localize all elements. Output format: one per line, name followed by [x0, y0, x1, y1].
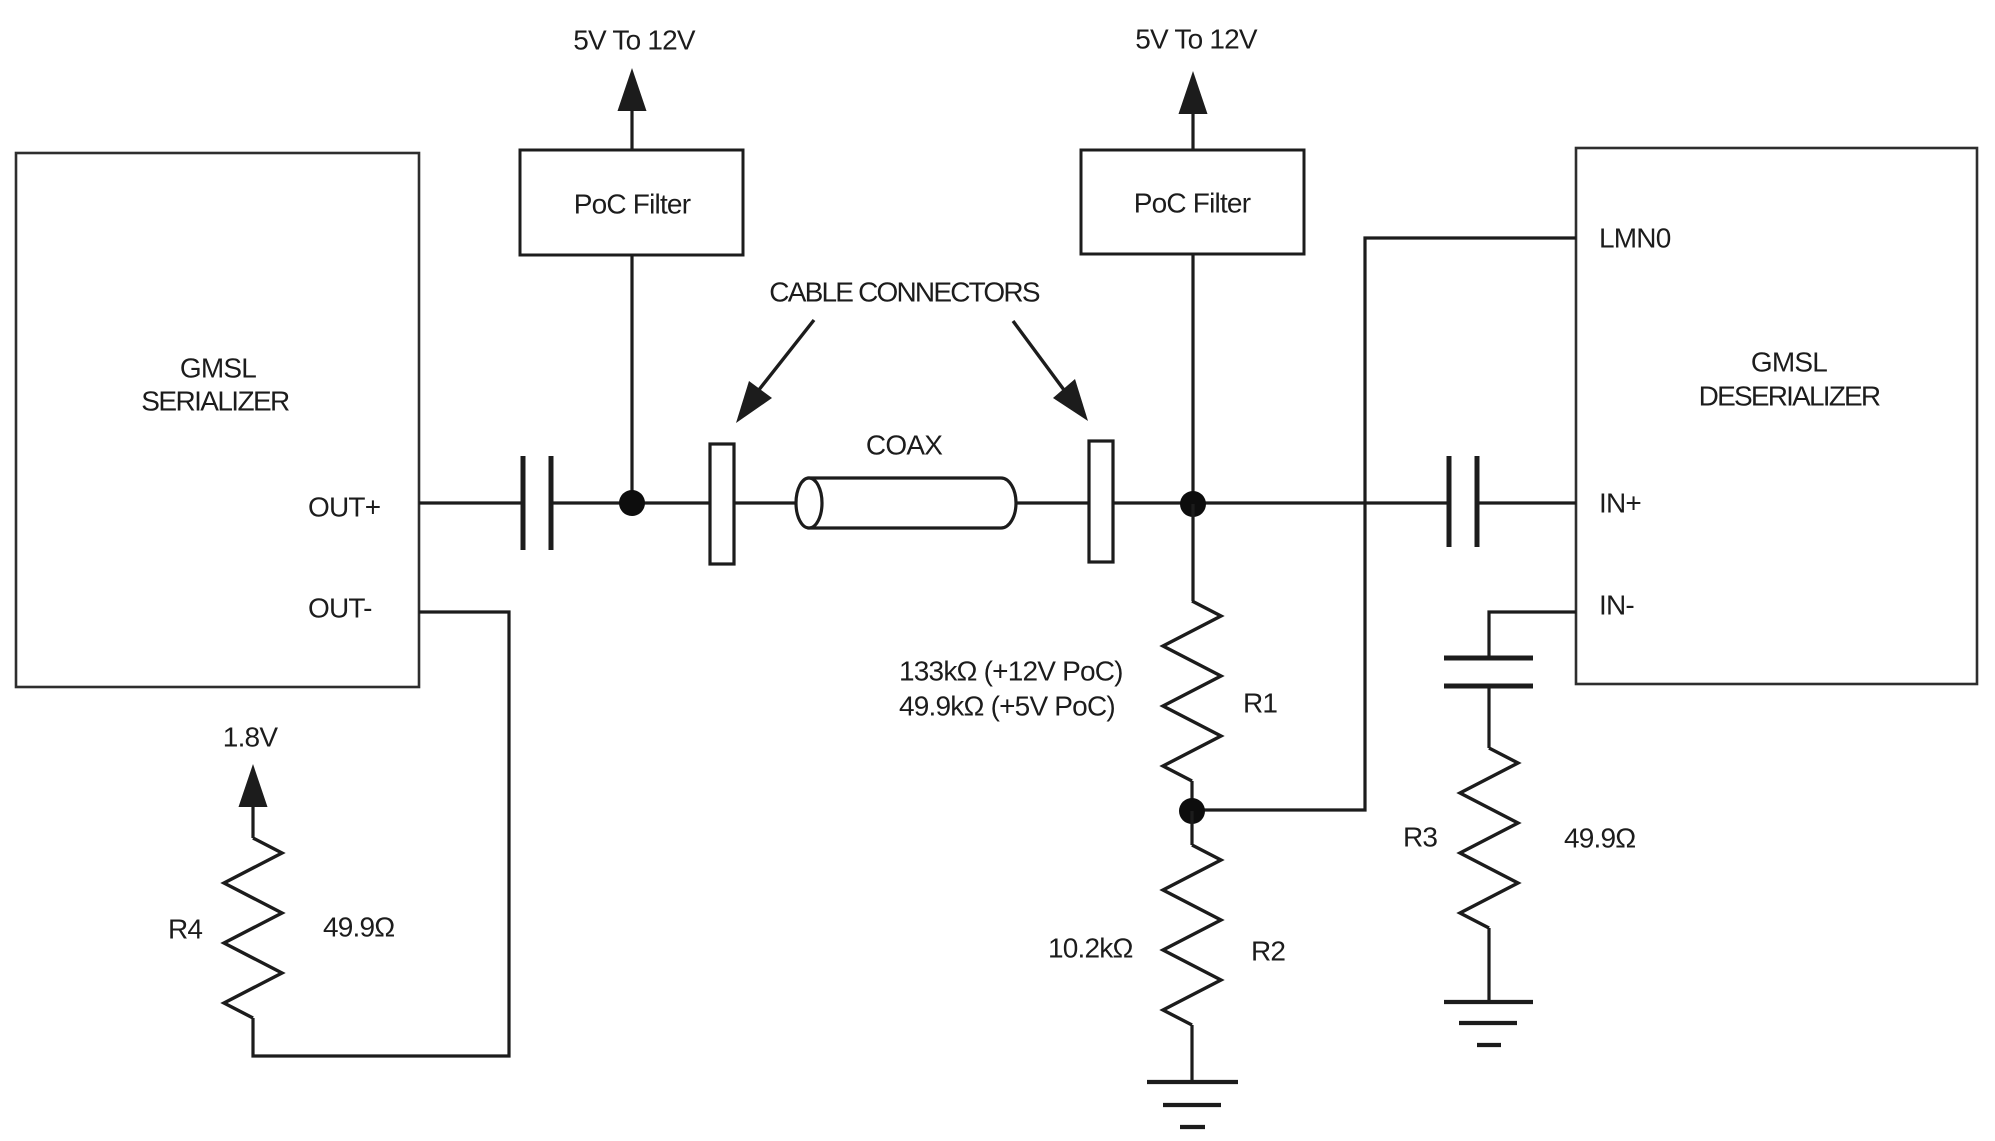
svg-text:133kΩ (+12V PoC): 133kΩ (+12V PoC)	[899, 656, 1123, 687]
wire R2 to ground	[1190, 1025, 1193, 1082]
wire C3 to R3	[1487, 686, 1490, 748]
svg-text:OUT-: OUT-	[308, 593, 372, 624]
wire R4 to 1.8V arrow	[251, 801, 254, 838]
svg-text:IN+: IN+	[1599, 488, 1641, 519]
node junction dot 1	[619, 490, 645, 516]
svg-text:49.9kΩ (+5V PoC): 49.9kΩ (+5V PoC)	[899, 691, 1115, 722]
svg-text:R2: R2	[1251, 936, 1285, 967]
svg-text:SERIALIZER: SERIALIZER	[141, 386, 289, 417]
node junction dot 2	[1180, 491, 1206, 517]
wire connector 2 to C2	[1113, 501, 1449, 504]
svg-text:R4: R4	[168, 914, 202, 945]
power arrow to 5V-12V rail (right)	[1179, 71, 1208, 150]
svg-text:10.2kΩ: 10.2kΩ	[1048, 933, 1133, 964]
resistor R3	[1460, 748, 1518, 928]
wire PoC filter 2 drop	[1191, 254, 1194, 504]
wire OUT- loop	[253, 612, 509, 1056]
svg-text:LMN0: LMN0	[1599, 223, 1671, 254]
wire R3 to ground	[1487, 928, 1490, 1001]
node junction dot 3 (R1/R2)	[1179, 798, 1205, 824]
wire R1 to node	[1190, 781, 1193, 810]
label R1 value	[899, 656, 1123, 722]
svg-text:DESERIALIZER: DESERIALIZER	[1699, 381, 1880, 412]
wire connector 1 to coax	[734, 501, 800, 504]
wire LMN0 net	[1192, 238, 1576, 810]
svg-text:OUT+: OUT+	[308, 492, 380, 523]
cable connector 1	[710, 444, 734, 564]
svg-text:GMSL: GMSL	[1751, 347, 1827, 378]
svg-text:CABLE CONNECTORS: CABLE CONNECTORS	[769, 277, 1040, 308]
svg-text:R1: R1	[1243, 688, 1277, 719]
svg-text:1.8V: 1.8V	[223, 722, 279, 753]
resistor R4	[224, 838, 282, 1018]
wire IN- stub	[1489, 612, 1576, 657]
GMSL deserializer U2 box	[1576, 148, 1977, 684]
svg-text:PoC Filter: PoC Filter	[1134, 188, 1251, 219]
svg-text:5V To 12V: 5V To 12V	[1135, 24, 1258, 55]
PoC filter box 2	[1081, 150, 1304, 254]
power arrow to 5V-12V rail (left)	[618, 68, 647, 150]
svg-text:R3: R3	[1403, 822, 1437, 853]
svg-text:COAX: COAX	[866, 430, 943, 461]
callout arrow to connector 1	[736, 320, 814, 423]
wire C2 to IN+	[1477, 501, 1576, 504]
ground below R2	[1147, 1082, 1238, 1127]
wire dot2 to R1	[1191, 504, 1194, 601]
wire node to R2	[1190, 811, 1193, 845]
svg-text:GMSL: GMSL	[180, 353, 256, 384]
svg-text:PoC Filter: PoC Filter	[574, 189, 691, 220]
PoC filter box 1	[520, 150, 743, 255]
svg-text:49.9Ω: 49.9Ω	[323, 912, 394, 943]
resistor R1	[1163, 601, 1221, 781]
callout arrow to connector 2	[1013, 321, 1088, 421]
svg-text:IN-: IN-	[1599, 590, 1634, 621]
capacitor C2	[1449, 456, 1477, 547]
wire PoC filter 1 drop	[630, 255, 633, 503]
svg-text:5V To 12V: 5V To 12V	[573, 25, 696, 56]
wire coax to connector 2	[1016, 501, 1089, 504]
power arrow 1.8V	[239, 764, 268, 807]
wire OUT+ to C1	[419, 501, 522, 504]
capacitor C1	[523, 456, 551, 550]
capacitor C3	[1444, 658, 1533, 686]
coax cable body	[796, 478, 1016, 528]
svg-text:49.9Ω: 49.9Ω	[1564, 823, 1635, 854]
ground below R3	[1444, 1002, 1533, 1045]
wire C1 to connector 1	[551, 501, 710, 504]
GMSL serializer U1 box	[16, 153, 419, 687]
cable connector 2	[1089, 441, 1113, 562]
resistor R2	[1163, 845, 1221, 1025]
